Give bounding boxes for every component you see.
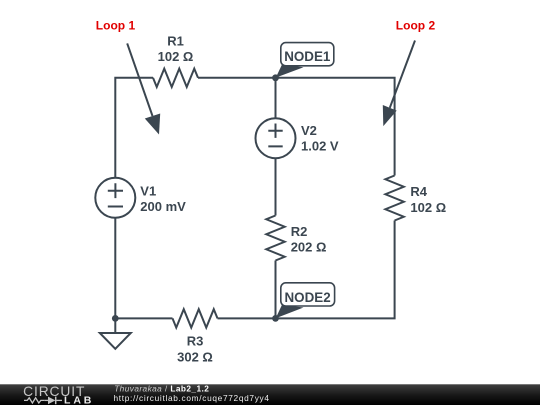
annotation Loop 1 arrow <box>127 43 160 134</box>
label R2 value <box>291 224 327 255</box>
svg-text:Loop 2: Loop 2 <box>396 18 436 32</box>
svg-text:202 Ω: 202 Ω <box>291 240 327 255</box>
svg-text:LAB: LAB <box>64 395 94 405</box>
svg-text:R1: R1 <box>167 34 184 49</box>
node dot ground junction <box>112 315 119 322</box>
svg-text:R2: R2 <box>291 224 308 239</box>
wire left vertical lower <box>114 218 116 319</box>
node flag NODE2 <box>276 283 335 319</box>
svg-text:http://circuitlab.com/cuqe772q: http://circuitlab.com/cuqe772qd7yy4 <box>114 393 270 403</box>
voltage source V2 <box>256 118 296 158</box>
resistor R4 <box>385 176 403 221</box>
footer logo diode glyph <box>44 397 62 405</box>
label V1 value <box>140 183 186 214</box>
svg-text:302 Ω: 302 Ω <box>177 349 213 364</box>
svg-text:V1: V1 <box>140 183 156 198</box>
label R3 value <box>177 334 213 365</box>
node dot NODE2 junction <box>272 315 279 322</box>
svg-text:Loop 1: Loop 1 <box>96 18 136 32</box>
svg-text:Thuvarakaa / Lab2_1.2: Thuvarakaa / Lab2_1.2 <box>114 383 209 393</box>
ground <box>100 318 131 348</box>
wire bottom-right corner <box>218 221 395 319</box>
svg-text:NODE1: NODE1 <box>284 49 331 64</box>
label R1 value <box>158 34 194 64</box>
svg-text:1.02 V: 1.02 V <box>301 139 339 154</box>
annotation Loop 2 arrow <box>383 41 415 127</box>
wire middle (V2 to R2) <box>275 158 277 215</box>
wire top-left corner <box>115 78 153 178</box>
wire middle upper (NODE1 to V2) <box>275 78 277 118</box>
resistor R1 <box>153 69 198 87</box>
footer bar <box>0 384 540 405</box>
wire bottom-left horizontal <box>115 317 172 319</box>
resistor R2 <box>266 216 284 261</box>
label V2 value <box>301 123 339 154</box>
wire middle lower (R2 to NODE2) <box>275 261 277 319</box>
node dot NODE1 junction <box>272 74 279 81</box>
svg-text:NODE2: NODE2 <box>285 290 331 305</box>
svg-text:R4: R4 <box>410 184 427 199</box>
svg-text:200 mV: 200 mV <box>140 199 186 214</box>
node flag NODE1 <box>276 43 334 78</box>
wire top-right corner <box>198 78 395 176</box>
voltage source V1 <box>95 178 135 218</box>
label R4 value <box>410 184 446 215</box>
svg-text:102 Ω: 102 Ω <box>410 200 446 215</box>
svg-text:V2: V2 <box>301 123 317 138</box>
svg-text:R3: R3 <box>187 334 204 349</box>
resistor R3 <box>173 309 218 327</box>
svg-text:102 Ω: 102 Ω <box>158 49 194 64</box>
footer logo resistor glyph <box>24 398 44 403</box>
